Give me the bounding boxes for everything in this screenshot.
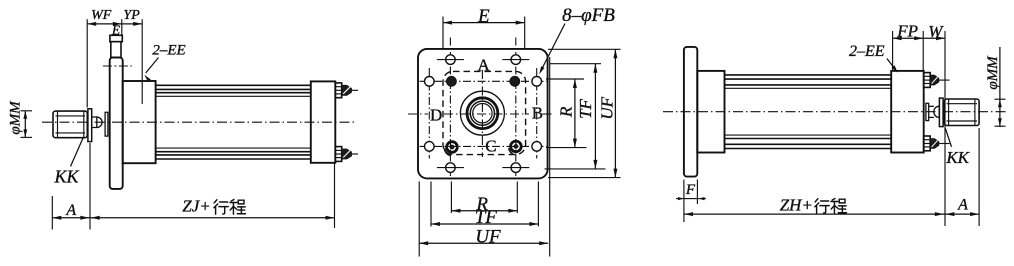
left view port boss stem	[111, 42, 121, 58]
svg-text:R: R	[557, 106, 576, 118]
right view F dimension	[684, 198, 699, 200]
left view rod neck	[92, 116, 97, 118]
left view mounting flange plate	[110, 58, 123, 189]
right view flange left extension	[683, 180, 685, 223]
right view head block	[891, 71, 924, 153]
front view right extension line plate top	[548, 48, 621, 50]
right view tie rod bottom	[725, 143, 892, 145]
front view mounting hole mid-left-bottom	[425, 142, 435, 152]
front view mounting hole mid-right-bottom	[532, 142, 542, 152]
left view A right extension line	[89, 143, 91, 230]
front view mounting hole top-left	[446, 55, 456, 65]
front view bottom R dimension	[451, 210, 517, 212]
left view ZJ right extension line	[334, 163, 336, 228]
right view bottom tie-rod axis dash	[937, 143, 950, 145]
front view right extension line corner-hole row top	[550, 63, 601, 65]
right view tie rod top	[725, 74, 892, 76]
front view E dimension	[443, 22, 525, 24]
svg-text:A: A	[65, 202, 76, 219]
left view WF left extension line	[86, 19, 88, 107]
right view rod thread minor lines	[947, 103, 978, 105]
front view bore outer circle	[460, 91, 504, 135]
right view bottom dimension line ZH and A	[684, 213, 979, 215]
left view cap block	[311, 81, 336, 162]
left view rod shoulder washer	[88, 109, 92, 142]
svg-text:B: B	[532, 103, 543, 122]
right view FP left extension	[892, 31, 894, 71]
left view rod dome	[97, 117, 102, 128]
right view rod-end thread KK block	[944, 99, 979, 126]
front view UF vertical dimension	[614, 49, 616, 177]
right view flange right extension	[696, 180, 698, 205]
svg-text:KK: KK	[53, 167, 79, 187]
front view right extension line mid-hole row top	[546, 78, 584, 80]
svg-text:φMM: φMM	[8, 100, 24, 135]
svg-text:KK: KK	[945, 148, 970, 167]
svg-text:ZH+: ZH+	[780, 196, 813, 215]
right view FP-W dimension line	[893, 37, 945, 39]
right view rod dome	[934, 106, 939, 117]
svg-text:TF: TF	[576, 98, 595, 118]
front view vertical main centerline	[481, 70, 483, 157]
front view plate right edge extension vertical	[549, 57, 551, 257]
svg-text:C: C	[485, 137, 496, 156]
front view body square dashed	[443, 71, 526, 154]
right view W right / A left extension line	[944, 31, 946, 226]
front view flange plate outline	[418, 49, 548, 179]
front view bottom TF dimension	[431, 223, 538, 225]
left view phi-MM dimension	[24, 111, 26, 138]
right view FP right extension	[922, 31, 924, 71]
right view gland retainer bar	[926, 103, 929, 120]
svg-text:E: E	[111, 23, 121, 38]
front view right extension line plate bottom	[548, 177, 621, 179]
right view main centerline	[663, 111, 1007, 113]
svg-text:D: D	[430, 105, 442, 124]
left view top tie-rod nut	[335, 83, 341, 98]
left view gland retainer plate	[105, 112, 108, 136]
right view KK leader line	[945, 128, 951, 147]
left view rod thread minor lines	[56, 115, 86, 117]
right view 2-EE leader arrow	[887, 59, 897, 72]
left view cylinder head block	[123, 81, 156, 163]
front view vertical mid-hole column centerline left	[428, 68, 430, 159]
front view tie rod top-right	[510, 76, 520, 86]
left view rod-end thread KK block	[53, 111, 87, 138]
front view mounting hole bottom-right	[511, 163, 521, 173]
svg-text:TF: TF	[475, 207, 498, 228]
right view top tie-rod nut	[924, 73, 931, 88]
front view R vertical dimension	[574, 79, 576, 148]
left view KK leader line	[71, 139, 83, 167]
svg-text:W: W	[928, 22, 944, 41]
left view WF-YP dimension line	[87, 23, 142, 25]
left view A left extension line	[51, 196, 53, 230]
front view mounting hole bottom-left	[446, 163, 456, 173]
front view tie rod bottom-left nut	[447, 142, 458, 153]
left view tie rod top	[156, 84, 311, 86]
front view right extension line mid-hole row bottom	[546, 147, 587, 149]
left view tie rod bottom	[156, 154, 311, 156]
front view TF vertical dimension	[594, 64, 596, 169]
svg-text:UF: UF	[597, 96, 616, 119]
svg-text:UF: UF	[475, 227, 501, 248]
right view tube bottom lines	[725, 134, 892, 136]
front view vertical hole column centerline left	[449, 38, 451, 180]
right view bottom tie-rod nut	[924, 136, 931, 151]
right view cap block	[697, 71, 724, 153]
front view mounting hole top-right	[511, 55, 521, 65]
left view tube top lines	[156, 92, 311, 94]
front view mounting hole mid-right-top	[532, 77, 542, 87]
front view right extension line corner-hole row bottom	[545, 168, 606, 170]
left view CJK stroke chars	[214, 199, 246, 214]
svg-text:FP: FP	[896, 22, 918, 41]
svg-text:A: A	[477, 56, 490, 75]
front view bottom extension lines	[418, 182, 420, 257]
front view gland ring thick	[467, 98, 498, 129]
left view top tie-rod axis dash	[352, 89, 358, 91]
front view tie rod bottom-right nut	[511, 141, 522, 152]
left view bottom tie-rod end	[342, 149, 352, 159]
left view bottom dimension line A and ZJ	[52, 217, 334, 219]
svg-text:YP: YP	[123, 8, 140, 23]
svg-text:WF: WF	[91, 8, 112, 23]
right view tube top lines	[725, 84, 892, 86]
left view tube bottom lines	[156, 147, 311, 149]
front view mounting hole mid-left-top	[425, 77, 435, 87]
right view CJK stroke chars	[815, 198, 847, 213]
front view vertical mid-hole column centerline right	[536, 68, 538, 159]
right view bottom tie-rod end	[930, 139, 939, 149]
front view vertical hole column centerline right	[515, 38, 517, 180]
front view tie rod top-left	[447, 76, 457, 86]
right view A right extension	[978, 128, 980, 226]
front view horizontal hole row centerline top	[420, 80, 547, 82]
left view: front-flange cylinder, main centerline	[42, 121, 356, 123]
left view bottom tie-rod axis dash	[352, 153, 358, 155]
left view flange mounting hole centerline	[103, 65, 132, 67]
right view rod shoulder washer	[939, 98, 943, 127]
left view port boss collar	[110, 35, 122, 41]
svg-text:A: A	[957, 197, 968, 214]
svg-text:φMM: φMM	[985, 55, 1001, 90]
left view WF/YP middle extension line	[121, 19, 123, 35]
left view 2-EE leader arrow	[146, 58, 159, 74]
svg-text:ZJ+: ZJ+	[182, 197, 210, 216]
right view phi-MM dimension	[999, 47, 1001, 127]
right view top tie-rod axis dash	[937, 79, 950, 81]
left view top tie-rod end	[342, 85, 352, 95]
svg-text:E: E	[477, 6, 490, 27]
front view bore ring	[470, 101, 494, 125]
svg-text:F: F	[685, 182, 696, 198]
right view top tie-rod end	[930, 75, 939, 85]
svg-text:8–φFB: 8–φFB	[562, 5, 615, 26]
left view port axis / YP extension line	[141, 19, 143, 104]
svg-text:2–EE: 2–EE	[152, 43, 185, 59]
right view rear mounting flange plate	[684, 47, 697, 177]
left view bottom tie-rod nut	[335, 147, 341, 162]
front view rod circle	[473, 104, 492, 123]
front view 8-phiFB leader	[541, 24, 566, 72]
front view horizontal main centerline	[408, 113, 428, 115]
svg-text:2–EE: 2–EE	[849, 43, 885, 60]
front view bottom UF dimension	[419, 242, 548, 244]
front view horizontal hole row centerline bottom	[420, 145, 547, 147]
right view rod neck	[929, 105, 934, 107]
